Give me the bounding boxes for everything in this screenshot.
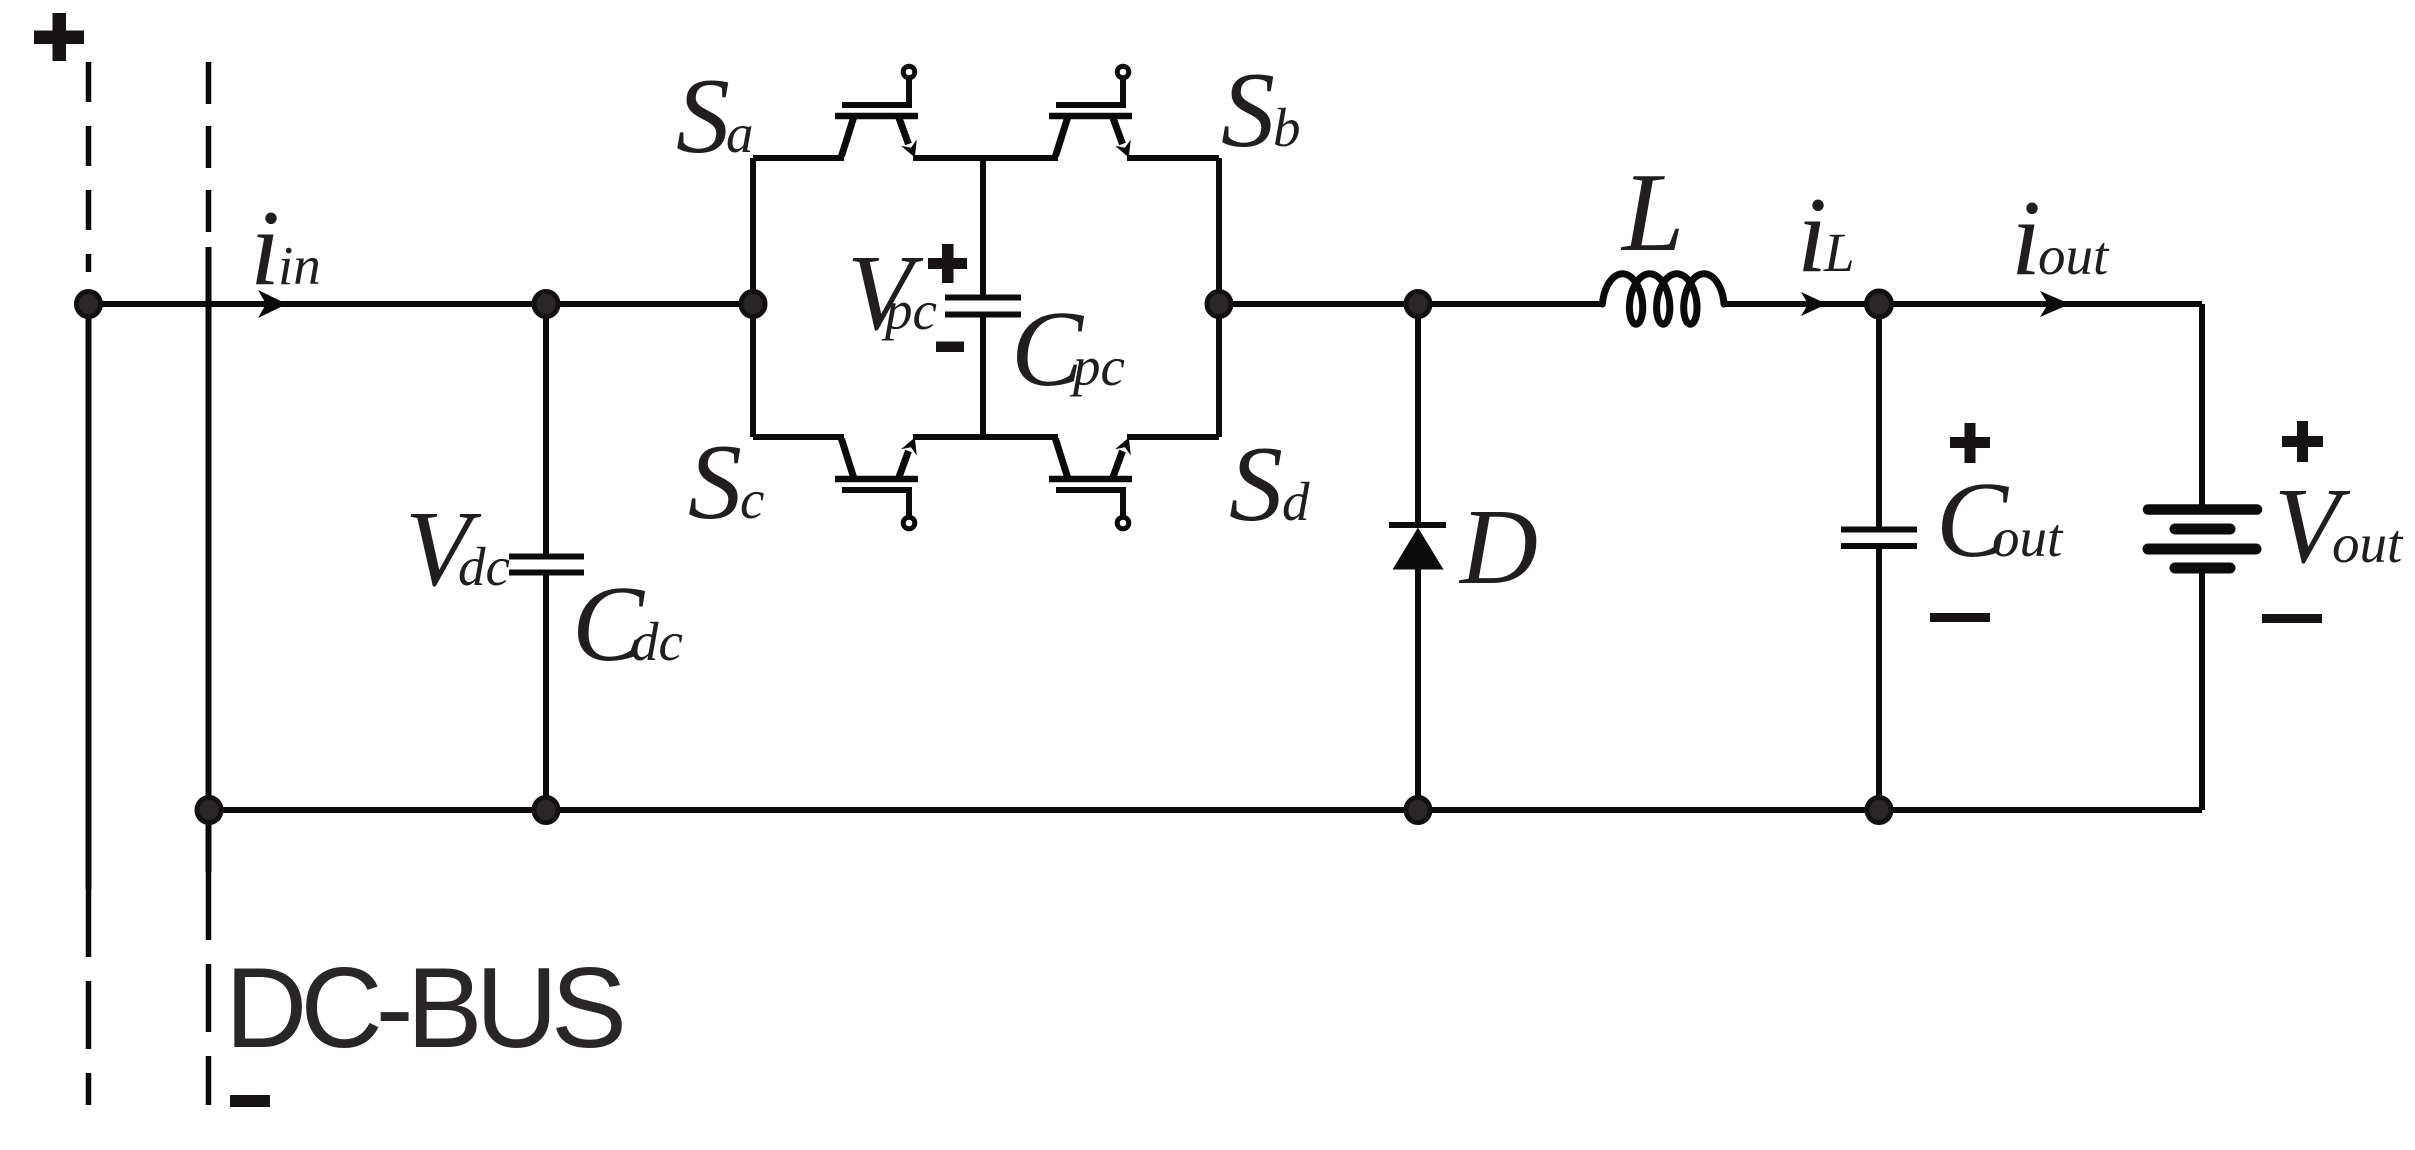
svg-text:D: D	[1458, 488, 1538, 607]
svg-text:d: d	[1282, 471, 1310, 532]
svg-text:in: in	[278, 235, 321, 296]
svg-text:L: L	[1823, 222, 1855, 283]
svg-text:out: out	[2332, 513, 2404, 574]
svg-text:L: L	[1620, 151, 1684, 275]
svg-text:S: S	[676, 57, 730, 176]
svg-text:S: S	[1229, 425, 1283, 544]
svg-text:a: a	[726, 103, 754, 164]
svg-text:pc: pc	[1069, 336, 1125, 397]
svg-text:S: S	[688, 423, 742, 542]
svg-text:i: i	[2011, 179, 2041, 298]
svg-text:dc: dc	[631, 611, 683, 672]
svg-text:b: b	[1273, 97, 1301, 158]
svg-text:DC-BUS: DC-BUS	[225, 945, 622, 1072]
svg-text:i: i	[1797, 176, 1827, 295]
svg-text:out: out	[1992, 507, 2064, 568]
svg-text:S: S	[1221, 51, 1275, 170]
svg-text:c: c	[740, 469, 764, 530]
svg-text:dc: dc	[458, 536, 510, 597]
svg-text:out: out	[2038, 225, 2110, 286]
svg-text:i: i	[250, 189, 280, 308]
svg-text:pc: pc	[881, 280, 937, 341]
